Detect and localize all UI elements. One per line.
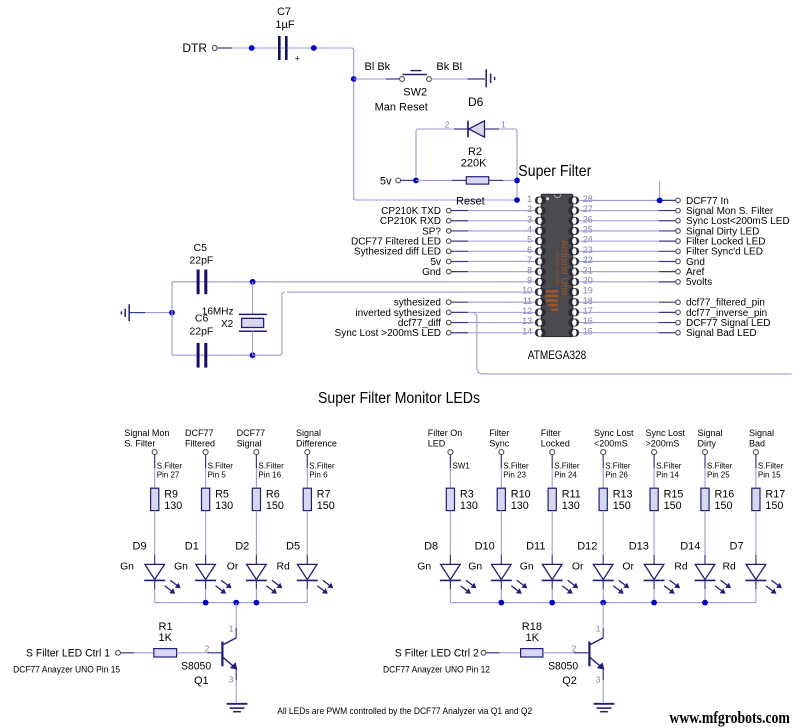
svg-text:3: 3: [596, 674, 601, 684]
svg-text:Difference: Difference: [296, 438, 337, 448]
svg-text:22pF: 22pF: [189, 255, 213, 267]
svg-text:DCF77: DCF77: [237, 428, 266, 438]
svg-text:Bk Bl: Bk Bl: [436, 61, 462, 73]
svg-text:Signal: Signal: [296, 428, 321, 438]
svg-text:3: 3: [527, 214, 532, 224]
svg-text:Q1: Q1: [194, 675, 209, 687]
svg-text:Rd: Rd: [674, 561, 688, 572]
svg-text:130: 130: [164, 500, 182, 512]
svg-text:LED: LED: [428, 438, 446, 448]
svg-text:Or: Or: [572, 561, 584, 572]
svg-text:21: 21: [583, 265, 593, 275]
svg-text:R1: R1: [159, 621, 173, 633]
svg-text:Gn: Gn: [520, 561, 534, 572]
svg-text:150: 150: [613, 500, 631, 512]
svg-text:1: 1: [527, 194, 532, 204]
svg-text:22: 22: [583, 255, 593, 265]
svg-text:Pin 15: Pin 15: [758, 471, 781, 480]
svg-text:10: 10: [522, 286, 532, 296]
svg-text:16: 16: [583, 316, 593, 326]
svg-text:9: 9: [527, 275, 532, 285]
svg-text:2: 2: [527, 204, 532, 214]
svg-text:8: 8: [527, 265, 532, 275]
svg-text:D2: D2: [235, 541, 249, 553]
svg-text:R3: R3: [460, 489, 474, 501]
svg-text:S8050: S8050: [548, 660, 578, 672]
svg-text:Bl Bk: Bl Bk: [365, 61, 391, 73]
svg-text:Sync Lost: Sync Lost: [594, 428, 634, 438]
svg-text:220K: 220K: [461, 157, 487, 169]
svg-text:Q2: Q2: [562, 675, 577, 687]
svg-text:S.Filter: S.Filter: [707, 462, 733, 471]
svg-text:S.Filter: S.Filter: [157, 462, 183, 471]
svg-text:Super Filter Monitor LEDs: Super Filter Monitor LEDs: [318, 390, 480, 407]
svg-text:18: 18: [583, 296, 593, 306]
svg-text:Sync: Sync: [489, 438, 510, 448]
svg-text:Filter: Filter: [489, 428, 509, 438]
svg-text:S.Filter: S.Filter: [758, 462, 784, 471]
svg-text:1K: 1K: [159, 632, 173, 644]
svg-text:D13: D13: [629, 541, 649, 553]
svg-text:22pF: 22pF: [189, 326, 213, 338]
svg-text:R5: R5: [215, 489, 229, 501]
svg-text:R18: R18: [522, 621, 542, 633]
svg-text:Super Filter: Super Filter: [518, 163, 592, 180]
svg-text:1µF: 1µF: [275, 19, 294, 31]
svg-text:27: 27: [583, 204, 593, 214]
svg-text:Signal: Signal: [237, 438, 262, 448]
svg-text:4: 4: [527, 225, 532, 235]
svg-text:1: 1: [501, 120, 506, 130]
svg-text:Gn: Gn: [417, 561, 431, 572]
svg-text:Pin 6: Pin 6: [309, 471, 328, 480]
svg-text:S.Filter: S.Filter: [554, 462, 580, 471]
svg-text:26: 26: [583, 214, 593, 224]
svg-text:130: 130: [215, 500, 233, 512]
svg-text:3: 3: [229, 674, 234, 684]
svg-text:DCF77 Anayzer UNO Pin 12: DCF77 Anayzer UNO Pin 12: [383, 665, 490, 675]
svg-text:R15: R15: [664, 489, 684, 501]
svg-text:All LEDs are PWM controlled by: All LEDs are PWM controlled by the DCF77…: [277, 706, 532, 716]
svg-text:Pin 24: Pin 24: [554, 471, 577, 480]
svg-text:Signal: Signal: [698, 428, 723, 438]
svg-text:DCF77: DCF77: [185, 428, 214, 438]
svg-text:Gn: Gn: [120, 561, 134, 572]
svg-text:Rd: Rd: [277, 561, 291, 572]
svg-text:5: 5: [527, 235, 532, 245]
svg-text:Sync Lost: Sync Lost: [646, 428, 686, 438]
svg-text:2: 2: [445, 120, 450, 130]
svg-text:R11: R11: [562, 489, 581, 501]
svg-text:2: 2: [205, 643, 210, 653]
svg-text:23: 23: [583, 245, 593, 255]
svg-text:130: 130: [511, 500, 529, 512]
svg-text:Dirty: Dirty: [698, 438, 717, 448]
svg-text:R16: R16: [715, 489, 735, 501]
svg-text:17: 17: [583, 306, 593, 316]
svg-text:S Filter LED Ctrl 1: S Filter LED Ctrl 1: [26, 648, 110, 660]
svg-text:Filtered: Filtered: [185, 438, 215, 448]
svg-text:12: 12: [522, 306, 532, 316]
svg-text:S. Filter: S. Filter: [124, 438, 155, 448]
svg-text:S8050: S8050: [181, 660, 211, 672]
svg-text:SW2: SW2: [403, 87, 427, 99]
svg-text:C6: C6: [195, 313, 209, 325]
svg-text:S.Filter: S.Filter: [258, 462, 284, 471]
svg-text:S.Filter: S.Filter: [503, 462, 529, 471]
svg-text:S.Filter: S.Filter: [605, 462, 631, 471]
svg-text:150: 150: [266, 500, 284, 512]
svg-text:D10: D10: [475, 541, 495, 553]
svg-text:11: 11: [523, 296, 532, 306]
svg-text:Pin 16: Pin 16: [258, 471, 281, 480]
svg-text:5v: 5v: [380, 176, 392, 188]
svg-text:Arduino Uno: Arduino Uno: [559, 240, 570, 296]
svg-text:150: 150: [715, 500, 733, 512]
svg-text:Gnd: Gnd: [422, 267, 441, 278]
svg-text:1K: 1K: [526, 632, 540, 644]
svg-text:SW1: SW1: [452, 462, 470, 471]
svg-text:D12: D12: [577, 541, 597, 553]
svg-text:Filter On: Filter On: [428, 428, 463, 438]
svg-text:Sync Lost >200mS LED: Sync Lost >200mS LED: [335, 328, 441, 339]
svg-text:14: 14: [522, 326, 532, 336]
svg-text:S.Filter: S.Filter: [309, 462, 335, 471]
svg-text:R17: R17: [765, 489, 785, 501]
svg-text:R10: R10: [511, 489, 531, 501]
svg-text:Pin 25: Pin 25: [707, 471, 730, 480]
svg-text:R9: R9: [164, 489, 178, 501]
svg-text:Or: Or: [622, 561, 634, 572]
svg-text:1: 1: [596, 624, 601, 634]
svg-text:28: 28: [583, 194, 593, 204]
svg-text:D1: D1: [185, 541, 199, 553]
svg-text:Pin 23: Pin 23: [503, 471, 526, 480]
svg-text:Or: Or: [227, 561, 239, 572]
svg-text:D9: D9: [133, 541, 147, 553]
svg-text:Pin 14: Pin 14: [656, 471, 679, 480]
svg-text:6: 6: [527, 245, 532, 255]
svg-text:D6: D6: [468, 95, 484, 109]
svg-text:15: 15: [583, 326, 593, 336]
svg-text:Pin 5: Pin 5: [208, 471, 227, 480]
svg-text:R13: R13: [613, 489, 633, 501]
svg-text:25: 25: [583, 225, 593, 235]
svg-text:150: 150: [317, 500, 335, 512]
svg-text:R2: R2: [468, 146, 482, 158]
svg-text:>200mS: >200mS: [646, 438, 680, 448]
svg-text:Signal Bad LED: Signal Bad LED: [686, 328, 757, 339]
svg-text:13: 13: [522, 316, 532, 326]
svg-text:R7: R7: [317, 489, 331, 501]
svg-text:150: 150: [765, 500, 783, 512]
svg-text:www.mfgrobots.com: www.mfgrobots.com: [669, 708, 790, 727]
svg-text:X2: X2: [221, 319, 234, 330]
svg-text:7: 7: [527, 255, 532, 265]
svg-text:DCF77 Anayzer UNO Pin 15: DCF77 Anayzer UNO Pin 15: [13, 665, 120, 675]
svg-text:C7: C7: [277, 6, 291, 18]
svg-text:Gn: Gn: [174, 561, 188, 572]
svg-text:150: 150: [664, 500, 682, 512]
svg-text:R6: R6: [266, 489, 280, 501]
svg-text:DTR: DTR: [182, 41, 207, 55]
svg-text:S.Filter: S.Filter: [208, 462, 234, 471]
svg-text:20: 20: [583, 275, 593, 285]
svg-text:Filter: Filter: [541, 428, 561, 438]
svg-text:Man Reset: Man Reset: [375, 102, 428, 114]
svg-text:Rd: Rd: [723, 561, 737, 572]
svg-text:Pin 27: Pin 27: [157, 471, 180, 480]
svg-text:130: 130: [562, 500, 580, 512]
svg-text:5volts: 5volts: [686, 277, 712, 288]
svg-text:Signal: Signal: [749, 428, 774, 438]
svg-text:Sythesized diff LED: Sythesized diff LED: [354, 247, 441, 258]
svg-text:Reset: Reset: [456, 195, 485, 207]
svg-text:2: 2: [572, 643, 577, 653]
svg-text:1: 1: [229, 624, 234, 634]
svg-text:ATMEGA328: ATMEGA328: [528, 348, 587, 362]
svg-text:Gn: Gn: [468, 561, 482, 572]
svg-text:24: 24: [583, 235, 593, 245]
svg-text:Locked: Locked: [541, 438, 570, 448]
svg-text:D14: D14: [680, 541, 700, 553]
svg-text:S.Filter: S.Filter: [656, 462, 682, 471]
svg-text:Bad: Bad: [749, 438, 765, 448]
svg-text:C5: C5: [194, 242, 208, 254]
svg-text:19: 19: [583, 286, 593, 296]
svg-text:+: +: [295, 54, 300, 64]
svg-text:D7: D7: [730, 541, 744, 553]
svg-text:D5: D5: [286, 541, 300, 553]
svg-text:Pin 26: Pin 26: [605, 471, 628, 480]
svg-text:D11: D11: [526, 541, 545, 553]
svg-text:Signal Mon: Signal Mon: [124, 428, 169, 438]
svg-text:130: 130: [460, 500, 478, 512]
svg-text:D8: D8: [424, 541, 438, 553]
svg-text:S Filter LED Ctrl 2: S Filter LED Ctrl 2: [395, 648, 479, 660]
svg-text:<200mS: <200mS: [594, 438, 628, 448]
